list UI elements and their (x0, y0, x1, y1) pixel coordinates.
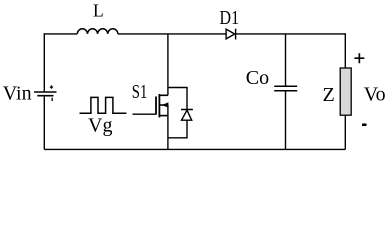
battery Vin bottom plate (37, 95, 53, 97)
transistor S1 drain stub (159, 94, 168, 96)
wire right vertical lower (344, 115, 346, 149)
battery Vin top plate (34, 91, 57, 93)
svg-text:D1: D1 (220, 7, 240, 29)
transistor S1 gate plate (155, 97, 157, 115)
svg-text:Vo: Vo (364, 84, 386, 106)
wire top-right segment (236, 33, 346, 35)
battery plus mark (50, 85, 53, 88)
svg-text:S1: S1 (132, 81, 148, 103)
transistor S1 source stub (159, 115, 168, 117)
capacitor Co top plate (274, 85, 297, 87)
gate pulse waveform Vg (80, 97, 127, 113)
wire Co branch lower (285, 91, 287, 150)
svg-text:Co: Co (246, 67, 269, 89)
svg-text:Vg: Vg (88, 114, 112, 136)
diode D1 triangle (226, 29, 235, 39)
wire source vertical (167, 105, 169, 149)
wire top-left segment (44, 33, 77, 35)
diode D1 cathode bar (235, 29, 237, 40)
body diode cathode bar (181, 109, 193, 111)
wire bottom (44, 148, 345, 150)
wire left vertical upper (43, 33, 45, 92)
transistor S1 channel bar (158, 94, 160, 117)
wire Co branch upper (285, 34, 287, 86)
output minus mark (362, 124, 367, 127)
transistor S1 body arrow (162, 102, 168, 108)
svg-text:L: L (93, 1, 104, 21)
svg-text:Z: Z (323, 84, 335, 106)
capacitor Co bottom plate (274, 90, 297, 92)
wire body-diode branch top (168, 88, 187, 110)
inductor L (77, 29, 118, 34)
wire drain vertical (167, 34, 169, 95)
svg-text:Vin: Vin (3, 83, 32, 105)
wire top-middle segment (118, 33, 226, 35)
body diode triangle (182, 110, 192, 120)
wire gate lead (133, 113, 157, 115)
wire left vertical lower (43, 96, 45, 150)
transistor S1 body stub (159, 104, 168, 106)
wire right vertical upper (344, 33, 346, 68)
wire body-diode branch bottom (168, 120, 187, 138)
load Z box (340, 68, 351, 115)
battery minus mark (51, 98, 53, 101)
output plus mark (354, 53, 364, 63)
